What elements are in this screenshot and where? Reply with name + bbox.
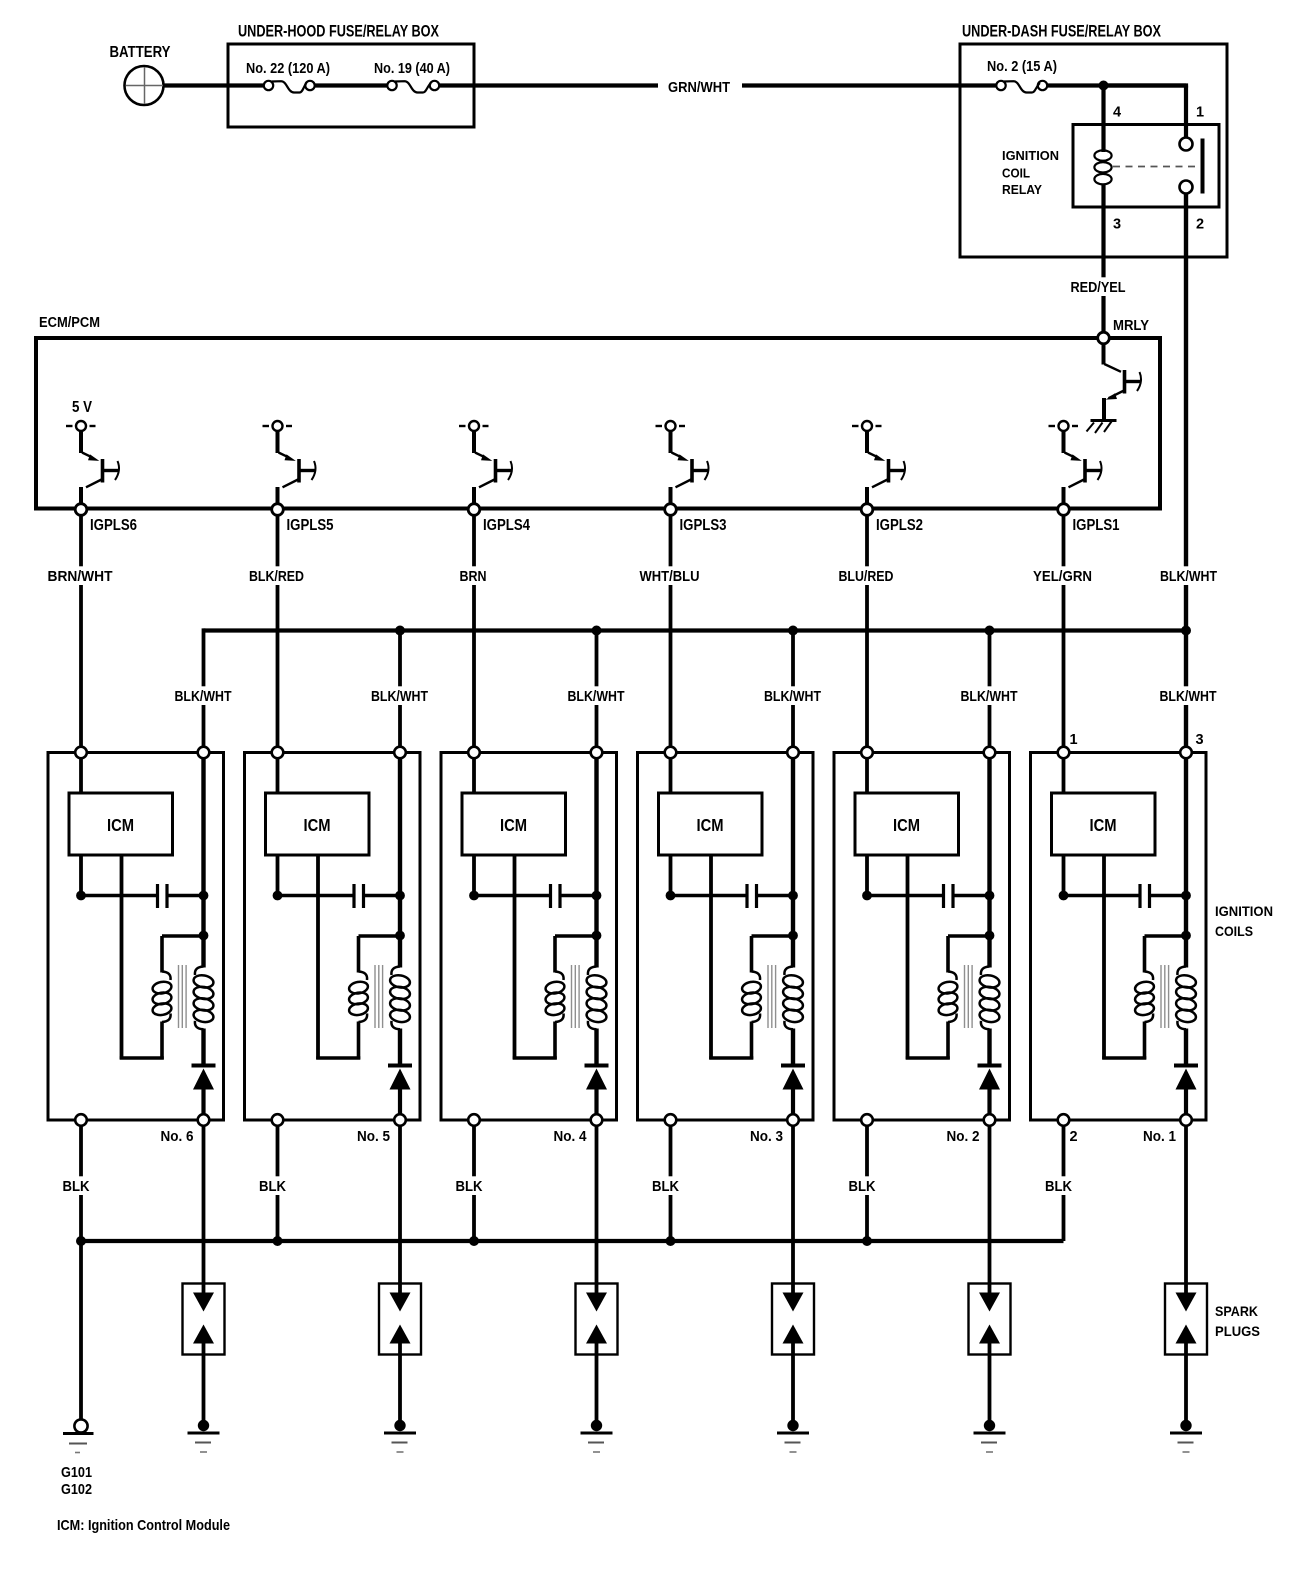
wire coil No.5 HT lead [398,1120,402,1293]
terminal coil No.4 top-right [591,747,603,759]
wire coil No.4 supply [594,758,598,968]
spark plug P6 [183,1284,225,1422]
wire diode to terminal [791,1090,795,1121]
svg-text:IGPLS3: IGPLS3 [680,517,727,534]
wire BLK (coil No.6 ground) [60,1120,93,1241]
wire primary bottom link [316,1022,360,1060]
svg-text:IGNITION: IGNITION [1002,148,1059,163]
wire BLK (coil No.5 ground) [256,1120,289,1241]
wire coil No.4 HT lead [595,1120,599,1293]
spark plug P4 [576,1284,618,1422]
svg-text:G101: G101 [61,1464,92,1481]
wire GRN/WHT fuse No.19 to under-dash box [440,80,997,96]
svg-text:No. 3: No. 3 [750,1129,783,1145]
ICM (coil No.4) [462,758,566,855]
wire fuse No.22 to fuse No.19 [315,83,387,87]
wire primary top link [1145,936,1187,973]
5V supply terminal (IGPLS4 driver) [459,421,489,431]
wire bus drop to coil No.2 [988,631,992,753]
svg-text:5 V: 5 V [72,399,93,416]
ignition coil relay [1002,125,1219,208]
svg-text:BLK/WHT: BLK/WHT [1160,688,1217,705]
terminal coil No.6 bottom-right [198,1114,210,1126]
transformer T1 secondary winding [1175,967,1197,1030]
wire BLK/WHT main down to coil No.1 [1184,631,1188,753]
node bus junction right [1181,626,1191,636]
svg-text:2: 2 [1196,217,1204,233]
svg-text:BLK/WHT: BLK/WHT [371,688,428,705]
ground (spark plug P4) [581,1420,613,1452]
svg-text:IGPLS2: IGPLS2 [876,517,923,534]
svg-text:YEL/GRN: YEL/GRN [1033,568,1092,585]
wire battery to fuse No.22 [163,83,264,87]
node junction at fuse output [1099,81,1109,91]
ICM (coil No.2) [855,758,959,855]
ignition coil unit No.1 box [1031,753,1207,1121]
wire primary top link [359,936,401,973]
transistor Q2 (IGPLS2 driver) [867,432,905,505]
svg-text:ICM: ICM [304,815,331,835]
ignition coil unit No.3 box [638,753,814,1121]
svg-text:IGPLS4: IGPLS4 [483,517,530,534]
wire diode to terminal [1184,1090,1188,1121]
wire BLK (coil No.4 ground) [453,1120,486,1241]
wire primary bottom link [709,1022,753,1060]
svg-text:BLK/WHT: BLK/WHT [568,688,625,705]
ground (spark plug P6) [188,1420,220,1452]
ignition coil unit No.6 box [48,753,224,1121]
terminal coil No.5 top-left [272,747,284,759]
svg-text:BLK/RED: BLK/RED [249,568,304,585]
spark plug P3 [772,1284,814,1422]
terminal coil No.6 top-right [198,747,210,759]
wire ICM right output [906,855,910,1059]
transformer T6 secondary winding [193,967,215,1030]
node BLK bus junction 2 [469,1236,479,1246]
svg-text:BLK/WHT: BLK/WHT [1160,568,1217,585]
diode D5 [388,1066,412,1090]
spark plug P1 [1165,1284,1207,1422]
node cap left junction [862,891,872,901]
node BLK bus junction 3 [666,1236,676,1246]
ignition coil unit No.4 box [441,753,617,1121]
svg-text:RELAY: RELAY [1002,182,1042,197]
node cap right junction [1181,891,1191,901]
wire bus drop to coil No.5 [398,631,402,753]
node BLK bus junction 4 [862,1236,872,1246]
terminal coil No.3 top-right [787,747,799,759]
ground (spark plug P2) [974,1420,1006,1452]
SPARK PLUGS label [1215,1303,1260,1339]
svg-text:No. 2 (15 A): No. 2 (15 A) [987,59,1057,75]
BLK bus wire [81,1239,1064,1243]
terminal coil No.6 top-left [75,747,87,759]
svg-text:BRN/WHT: BRN/WHT [48,568,113,585]
wire diode to terminal [987,1090,991,1121]
node cap left junction [666,891,676,901]
svg-text:BLU/RED: BLU/RED [839,568,894,585]
transformer T2 core [965,965,973,1028]
fuse No.2 (15 A) [987,59,1057,93]
terminal coil No.1 bottom-left [1058,1114,1070,1126]
ground G101/G102 [63,1419,94,1452]
wire bus drop to coil No.3 [791,631,795,753]
svg-text:PLUGS: PLUGS [1215,1323,1260,1339]
node BLK bus junction 1 [273,1236,283,1246]
terminal coil No.6 bottom-left [75,1114,87,1126]
svg-text:MRLY: MRLY [1113,317,1149,334]
wire secondary to diode [594,1029,598,1066]
svg-text:2: 2 [1070,1129,1078,1145]
svg-text:1: 1 [1196,105,1204,121]
wire primary bottom link [906,1022,950,1060]
terminal coil No.2 top-right [984,747,996,759]
ground (spark plug P1) [1170,1420,1202,1452]
terminal coil No.4 bottom-right [591,1114,603,1126]
transistor Q1 (IGPLS1 driver) [1064,432,1102,505]
terminal coil No.1 bottom-right [1180,1114,1192,1126]
terminal coil No.5 top-right [394,747,406,759]
svg-text:UNDER-HOOD FUSE/RELAY BOX: UNDER-HOOD FUSE/RELAY BOX [238,23,439,41]
wire BLK (coil No.2 ground) [846,1120,879,1241]
wire secondary to diode [791,1029,795,1066]
wire ICM left output [1062,855,1066,896]
ground (spark plug P3) [777,1420,809,1452]
transistor Q5 (IGPLS5 driver) [278,432,316,505]
svg-text:BLK/WHT: BLK/WHT [961,688,1018,705]
battery B1 [110,44,171,105]
transformer T3 core [768,965,776,1028]
svg-text:ECM/PCM: ECM/PCM [39,314,100,331]
node cap left junction [273,891,283,901]
wire ICM right output [1102,855,1106,1059]
diode D6 [192,1066,216,1090]
wire ICM left output [865,855,869,896]
ignition coil unit No.2 box [834,753,1010,1121]
IGNITION COILS label [1215,903,1273,939]
wire ICM left output [669,855,673,896]
terminal coil No.3 bottom-left [665,1114,677,1126]
svg-text:BLK: BLK [259,1178,286,1195]
wire relay pin 4 [1101,86,1105,153]
capacitor C3 [671,884,794,908]
node IGPLS3 [665,504,677,516]
node primary tap junction [1181,931,1191,941]
svg-text:IGPLS5: IGPLS5 [287,517,334,534]
node bus junction 3 [788,626,798,636]
svg-text:3: 3 [1196,732,1204,748]
wire BRN (IGPLS4 to coil) [457,515,490,753]
5V supply terminal (IGPLS5 driver) [263,421,293,431]
transformer T4 core [572,965,580,1028]
wire coil No.2 HT lead [988,1120,992,1293]
relay pin 2 terminal [1180,181,1193,194]
svg-text:BLK: BLK [652,1178,679,1195]
ECM/PCM box [36,338,1160,509]
svg-text:IGNITION: IGNITION [1215,903,1273,919]
relay pin 1 terminal [1180,138,1193,151]
BLK/WHT drop label [958,686,1021,705]
node primary tap junction [788,931,798,941]
node IGPLS1 [1058,504,1070,516]
svg-text:G102: G102 [61,1481,92,1498]
diode D4 [585,1066,609,1090]
svg-text:BLK/WHT: BLK/WHT [175,688,232,705]
svg-text:IGPLS6: IGPLS6 [90,517,137,534]
wire primary top link [948,936,990,973]
svg-text:ICM: ICM [500,815,527,835]
BLK/WHT drop label [368,686,431,705]
node bus junction 2 [592,626,602,636]
ICM (coil No.6) [69,758,173,855]
svg-text:No. 2: No. 2 [947,1129,980,1145]
wire secondary to diode [1184,1029,1188,1066]
wire ICM left output [79,855,83,896]
capacitor C5 [278,884,401,908]
node primary tap junction [199,931,209,941]
wire ICM right output [316,855,320,1059]
svg-text:No. 4: No. 4 [554,1129,587,1145]
wire BLK/RED (IGPLS5 to coil) [246,515,307,753]
terminal coil No.2 bottom-left [861,1114,873,1126]
svg-text:3: 3 [1113,217,1121,233]
wire BLU/RED (IGPLS2 to coil) [836,515,897,753]
terminal coil No.4 bottom-left [468,1114,480,1126]
wire secondary to diode [398,1029,402,1066]
svg-text:No. 1: No. 1 [1143,1129,1176,1145]
wire BRN/WHT (IGPLS6 to coil) [45,515,116,753]
wire YEL/GRN (IGPLS1 to coil) [1030,515,1095,753]
wire diode to terminal [201,1090,205,1121]
svg-text:COILS: COILS [1215,923,1253,939]
terminal coil No.1 top-left [1058,747,1070,759]
svg-text:GRN/WHT: GRN/WHT [668,80,730,96]
wire coil No.1 HT lead [1184,1120,1188,1293]
wire diode to terminal [594,1090,598,1121]
terminal coil No.3 top-left [665,747,677,759]
ground (ECM internal) [1087,421,1117,434]
node BLK bus left junction [76,1236,86,1246]
transformer T4 secondary winding [586,967,608,1030]
transformer T5 core [375,965,383,1028]
node cap right junction [985,891,995,901]
under-dash fuse/relay box [960,44,1227,257]
relay actuation dashed line [1113,166,1197,168]
wire BLK/WHT label (pin 2 feed) [1157,566,1220,585]
wire coil No.6 supply [201,758,205,968]
wire diode to terminal [398,1090,402,1121]
wire bus corner drop to coil No.6 [202,628,206,752]
transformer T2 secondary winding [979,967,1001,1030]
terminal coil No.2 top-left [861,747,873,759]
transistor Q7 (MRLY driver) [1104,338,1142,419]
svg-text:No. 22 (120 A): No. 22 (120 A) [246,61,330,77]
node MRLY [1098,332,1110,344]
svg-text:4: 4 [1113,105,1121,121]
diode D2 [978,1066,1002,1090]
fuse No.19 (40 A) [374,61,450,93]
transformer T6 primary winding [152,972,173,1023]
terminal coil No.5 bottom-left [272,1114,284,1126]
node IGPLS2 [861,504,873,516]
ICM (coil No.1) [1052,758,1156,855]
svg-text:ICM: Ignition Control Module: ICM: Ignition Control Module [57,1517,230,1534]
5V supply terminal (IGPLS3 driver) [656,421,686,431]
svg-text:ICM: ICM [107,815,134,835]
BLK/WHT drop label [172,686,235,705]
wire ICM right output [709,855,713,1059]
capacitor C2 [867,884,990,908]
wire secondary to diode [987,1029,991,1066]
svg-text:BLK: BLK [456,1178,483,1195]
node cap left junction [76,891,86,901]
spark plug P2 [969,1284,1011,1422]
wire ICM left output [276,855,280,896]
svg-text:SPARK: SPARK [1215,1303,1258,1319]
node cap right junction [592,891,602,901]
wire coil No.2 supply [987,758,991,968]
node IGPLS4 [468,504,480,516]
svg-text:WHT/BLU: WHT/BLU [640,568,700,585]
wire RED/YEL relay pin 3 to MRLY [1068,184,1129,334]
wire BLK/WHT relay pin 2 down right side [1184,194,1188,631]
svg-text:No. 6: No. 6 [161,1129,194,1145]
terminal coil No.5 bottom-right [394,1114,406,1126]
node primary tap junction [985,931,995,941]
ICM (coil No.5) [266,758,370,855]
diode D1 [1174,1066,1198,1090]
svg-text:COIL: COIL [1002,166,1030,181]
wire primary bottom link [1102,1022,1146,1060]
svg-text:1: 1 [1070,732,1078,748]
svg-text:IGPLS1: IGPLS1 [1073,517,1120,534]
transformer T6 core [179,965,187,1028]
node IGPLS5 [272,504,284,516]
terminal coil No.2 bottom-right [984,1114,996,1126]
svg-text:BATTERY: BATTERY [110,44,171,61]
wire primary bottom link [120,1022,164,1060]
node primary tap junction [395,931,405,941]
ignition coil unit No.5 box [245,753,421,1121]
node IGPLS6 [75,504,87,516]
wire ICM right output [513,855,517,1059]
svg-text:ICM: ICM [1090,815,1117,835]
BLK/WHT drop label [1157,686,1220,705]
svg-text:BLK: BLK [63,1178,90,1195]
5V supply terminal (IGPLS2 driver) [852,421,882,431]
transformer T1 primary winding [1134,972,1155,1023]
node bus junction 4 [985,626,995,636]
terminal coil No.3 bottom-right [787,1114,799,1126]
terminal coil No.4 top-left [468,747,480,759]
svg-text:BLK: BLK [1045,1178,1072,1195]
wire coil No.3 supply [791,758,795,968]
node bus junction 1 [395,626,405,636]
BLK/WHT drop label [565,686,628,705]
BLK/WHT bus wire [204,628,1187,632]
svg-text:UNDER-DASH FUSE/RELAY BOX: UNDER-DASH FUSE/RELAY BOX [962,23,1161,41]
transistor Q3 (IGPLS3 driver) [671,432,709,505]
node primary tap junction [592,931,602,941]
svg-text:ICM: ICM [893,815,920,835]
wire primary top link [555,936,597,973]
wire fuse No.2 to junction [1048,83,1187,87]
wire WHT/BLU (IGPLS3 to coil) [637,515,703,753]
diode D3 [781,1066,805,1090]
wire BLK (coil No.3 ground) [649,1120,682,1241]
wire to relay pin 1 [1184,86,1188,138]
node cap right junction [395,891,405,901]
wire coil No.1 supply [1184,758,1188,968]
5V supply terminal (IGPLS1 driver) [1049,421,1079,431]
node cap right junction [199,891,209,901]
transistor Q6 (IGPLS6 driver) [81,432,119,505]
transformer T4 primary winding [545,972,566,1023]
node cap left junction [469,891,479,901]
transformer T3 primary winding [741,972,762,1023]
transformer T5 secondary winding [389,967,411,1030]
wire GRN/WHT corner into pin 1 [1104,83,1189,87]
wire coil No.5 supply [398,758,402,968]
svg-text:No. 5: No. 5 [357,1129,390,1145]
terminal coil No.1 top-right [1180,747,1192,759]
BLK/WHT drop label [761,686,824,705]
ICM (coil No.3) [659,758,763,855]
wire secondary to diode [201,1029,205,1066]
wire coil No.6 HT lead [202,1120,206,1293]
ground (spark plug P5) [384,1420,416,1452]
wire primary top link [162,936,204,973]
wire primary top link [752,936,794,973]
transformer T5 primary winding [348,972,369,1023]
5V supply terminal (IGPLS6 driver) [66,399,96,431]
wire coil No.3 HT lead [791,1120,795,1293]
transformer T1 core [1161,965,1169,1028]
wire ICM right output [120,855,124,1059]
wire primary bottom link [513,1022,557,1060]
transformer T3 secondary winding [782,967,804,1030]
relay coil winding [1094,150,1111,184]
spark plug P5 [379,1284,421,1422]
capacitor C1 [1064,884,1187,908]
svg-text:ICM: ICM [697,815,724,835]
capacitor C6 [81,884,204,908]
wire ICM left output [472,855,476,896]
wire BLK (coil No.1 ground) [1042,1120,1075,1241]
svg-text:No. 19 (40 A): No. 19 (40 A) [374,61,450,77]
node cap left junction [1059,891,1069,901]
svg-text:RED/YEL: RED/YEL [1071,279,1126,296]
transformer T2 primary winding [938,972,959,1023]
capacitor C4 [474,884,597,908]
svg-text:BRN: BRN [460,568,487,585]
under-hood fuse/relay box [228,44,474,127]
fuse No.22 (120 A) [246,61,330,93]
transistor Q4 (IGPLS4 driver) [474,432,512,505]
svg-text:BLK: BLK [849,1178,876,1195]
wire bus drop to coil No.4 [595,631,599,753]
relay contact bar [1201,139,1205,194]
node cap right junction [788,891,798,901]
svg-text:BLK/WHT: BLK/WHT [764,688,821,705]
wire to ground G101/G102 [79,1241,83,1420]
